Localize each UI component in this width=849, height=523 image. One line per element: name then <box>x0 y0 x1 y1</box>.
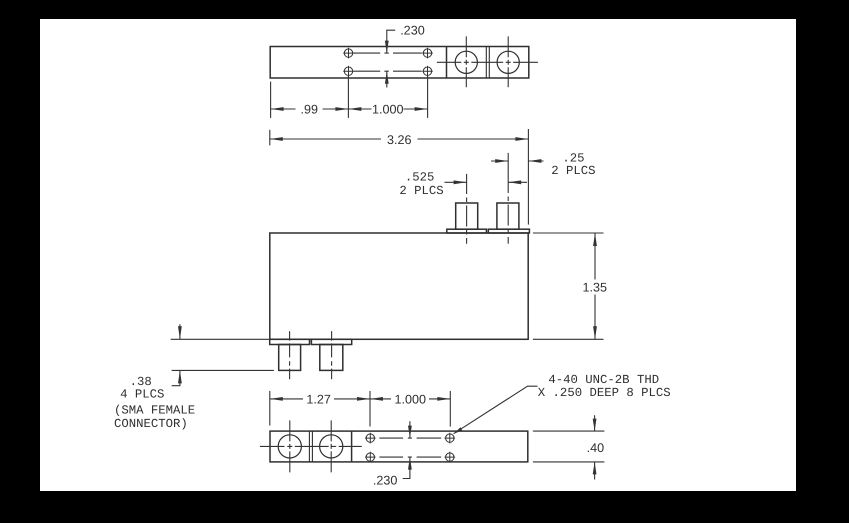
dimension .25 2 PLCS <box>491 160 544 162</box>
top view bore 1 centerline vertical <box>465 36 467 87</box>
top view body outline <box>270 47 529 79</box>
front view bottom connector B body <box>320 345 343 371</box>
bottom view hole row 2 centerline <box>379 456 441 458</box>
dimension 3.26 <box>270 129 529 225</box>
svg-text:.230: .230 <box>400 23 425 37</box>
front view bottom connector A body <box>279 345 301 371</box>
front view bottom connector A flange <box>270 339 310 344</box>
dimension .525 2 PLCS <box>445 181 528 183</box>
bottom view connector bore B <box>320 435 343 458</box>
dimension .99 / 1.000 (top view) <box>271 76 428 118</box>
svg-text:2 PLCS: 2 PLCS <box>399 184 443 198</box>
top view connector bore 2 <box>497 51 519 73</box>
leader 4-40 UNC-2B THD <box>454 386 538 434</box>
dimension .230 (top view) leader <box>387 30 395 87</box>
dimension 1.27 / 1.000 (bottom view) <box>270 391 451 427</box>
svg-text:1.35: 1.35 <box>582 281 607 295</box>
tapped hole top-right <box>422 48 433 59</box>
bottom view hole row 1 centerline <box>379 437 441 439</box>
front view top connector 1 body <box>456 203 478 229</box>
svg-text:.40: .40 <box>587 441 605 455</box>
front view top connector 2 flange <box>488 229 529 233</box>
top view hole row 2 centerline <box>354 70 422 72</box>
bottom view bore A centerline vertical <box>289 420 291 472</box>
svg-text:1.000: 1.000 <box>372 102 404 116</box>
top view section divider <box>446 47 448 79</box>
dimension .38 4 PLCS <box>171 324 274 386</box>
top view hole row 1 centerline <box>354 52 422 54</box>
front view body outline <box>270 203 530 370</box>
svg-text:.99: .99 <box>301 102 319 116</box>
tapped hole row1-left (bottom view) <box>365 433 376 444</box>
front view bottom connector centerlines <box>289 331 291 379</box>
tapped hole row1-right (bottom view) <box>445 433 456 444</box>
front view bottom connector B flange <box>311 339 351 344</box>
top view bore centerline horizontal <box>437 61 538 63</box>
svg-text:.525: .525 <box>405 170 435 184</box>
bottom view bore centerline horizontal <box>260 445 362 447</box>
top view connector bore 1 <box>455 51 477 73</box>
top view bore 2 centerline vertical <box>507 36 509 87</box>
svg-text:1.000: 1.000 <box>395 392 427 406</box>
tapped hole bottom-left (top view) <box>343 66 354 77</box>
tapped hole row2-right (bottom view) <box>445 452 456 463</box>
tapped hole top-left <box>343 48 354 59</box>
bottom view bore B centerline vertical <box>330 420 332 472</box>
svg-text:1.27: 1.27 <box>306 392 331 406</box>
bottom view body outline <box>270 431 528 462</box>
tapped hole row2-left (bottom view) <box>365 452 376 463</box>
top view double divider <box>485 47 487 79</box>
bottom view connector bore A <box>278 435 301 458</box>
svg-text:3.26: 3.26 <box>387 133 412 147</box>
svg-text:2 PLCS: 2 PLCS <box>551 164 595 178</box>
svg-text:.230: .230 <box>373 473 398 487</box>
front view top connector centerlines <box>290 153 509 379</box>
dimension .230 (bottom view) leader <box>403 421 410 478</box>
tapped hole bottom-right (top view) <box>422 66 433 77</box>
bottom view double divider <box>308 431 310 462</box>
dimension 1.35 <box>533 233 604 339</box>
front view top connector 2 body <box>497 203 519 229</box>
dimension .40 <box>533 415 605 479</box>
front view top connector 1 flange <box>447 229 487 233</box>
svg-text:(SMA FEMALE: (SMA FEMALE <box>114 403 195 417</box>
svg-text:X .250 DEEP 8 PLCS: X .250 DEEP 8 PLCS <box>538 386 671 400</box>
bottom view section divider <box>351 431 353 462</box>
svg-text:4 PLCS: 4 PLCS <box>120 387 164 401</box>
svg-text:CONNECTOR): CONNECTOR) <box>114 417 188 431</box>
